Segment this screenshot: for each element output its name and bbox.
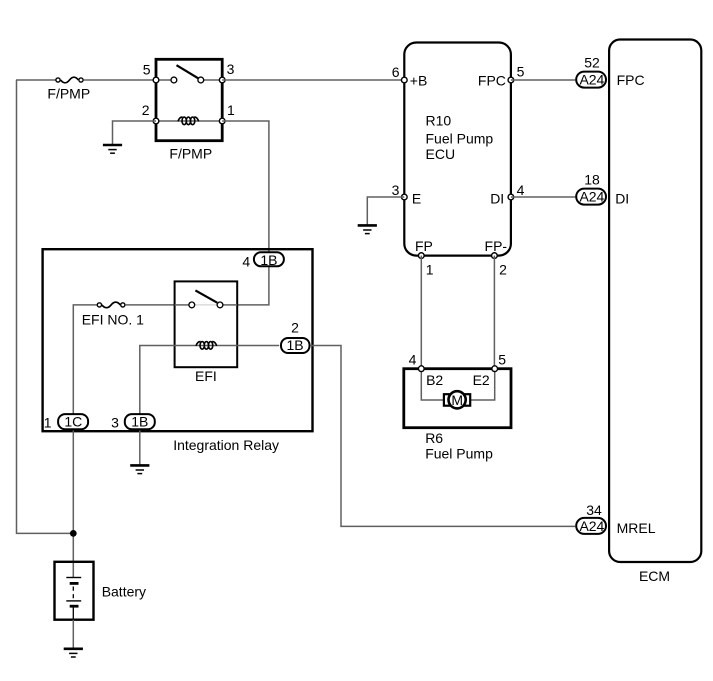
svg-text:FPC: FPC [617, 72, 645, 88]
svg-text:1C: 1C [64, 414, 82, 430]
ground (battery) [64, 649, 83, 657]
svg-text:1: 1 [227, 102, 235, 118]
svg-text:1: 1 [44, 415, 52, 431]
svg-text:A24: A24 [579, 189, 604, 205]
wire: relay pin 3 to ECU +B [222, 79, 404, 81]
svg-text:Battery: Battery [102, 584, 146, 600]
pin label FP [415, 238, 433, 254]
wire: pump pin 5 to motor [470, 369, 495, 400]
svg-text:5: 5 [517, 64, 525, 80]
pin 1 terminal [219, 118, 225, 124]
svg-text:MREL: MREL [617, 520, 656, 536]
svg-text:3: 3 [392, 182, 400, 198]
svg-text:ECU: ECU [426, 146, 456, 162]
pin number 1 [426, 262, 434, 278]
svg-text:R6: R6 [425, 430, 443, 446]
motor M [444, 391, 470, 408]
wire: 1C pin 1 down to battery [72, 431, 74, 578]
pin label FPC [478, 72, 506, 88]
ECM pin label MREL [617, 520, 656, 536]
wire: EFI coil out to 1B pin 2 [237, 345, 279, 347]
pin number 3 [392, 182, 400, 198]
svg-text:5: 5 [143, 61, 151, 77]
pin number 5 [143, 61, 151, 77]
pin FPC terminal [508, 77, 514, 83]
svg-text:DI: DI [615, 191, 629, 207]
pin DI terminal [508, 194, 514, 200]
svg-text:2: 2 [499, 262, 507, 278]
pin number 4 [242, 253, 250, 269]
pin +B terminal [401, 77, 407, 83]
svg-text:6: 6 [392, 64, 400, 80]
wire: 1B pin 2 to ECM MREL [311, 346, 576, 527]
svg-text:3: 3 [227, 61, 235, 77]
wire: ECU FP down to pump pin 4 [420, 256, 422, 369]
relay F/PMP box [156, 59, 222, 140]
svg-text:FP-: FP- [485, 238, 508, 254]
wire: fuse to EFI relay [125, 304, 174, 306]
pin number 5 [517, 64, 525, 80]
coil F/PMP relay [178, 117, 199, 125]
svg-text:2: 2 [142, 102, 150, 118]
pin number 4 [517, 182, 525, 198]
svg-text:1B: 1B [260, 252, 277, 268]
pin number 6 [392, 64, 400, 80]
connector 1B pin 2 [281, 337, 310, 353]
pin 3 terminal [219, 77, 225, 83]
wire: relay pin 2 to ground [113, 121, 157, 144]
pin label E2 [473, 372, 490, 388]
svg-text:4: 4 [409, 351, 417, 367]
pin number 1 [44, 415, 52, 431]
integration relay box [43, 249, 313, 431]
svg-text:FP: FP [415, 238, 433, 254]
pin FP terminal [418, 253, 424, 259]
fuel pump R6 box [404, 369, 511, 428]
ECM pin label FPC [617, 72, 645, 88]
ground (integration relay) [130, 465, 149, 473]
pin number 52 [584, 55, 600, 71]
svg-text:ECM: ECM [639, 568, 670, 584]
svg-text:M: M [451, 392, 463, 408]
label R10 Fuel Pump ECU [426, 112, 494, 162]
wire: relay coil row [156, 120, 222, 122]
pin number 3 [111, 415, 119, 431]
svg-text:18: 18 [584, 171, 600, 187]
wire: ECU FP- down to pump pin 5 [493, 256, 495, 369]
wire: EFI NO.1 fuse feed [73, 305, 97, 414]
svg-text:52: 52 [584, 55, 600, 71]
pin number 5 [498, 351, 506, 367]
svg-text:4: 4 [242, 253, 250, 269]
svg-text:Fuel Pump: Fuel Pump [426, 130, 494, 146]
relay EFI box [175, 281, 238, 367]
pump pin 5 terminal [492, 366, 498, 372]
pin label E [412, 190, 421, 206]
pin E terminal [401, 194, 407, 200]
pin label DI [490, 190, 504, 206]
fuse F/PMP [56, 77, 83, 83]
coil EFI relay [196, 342, 217, 350]
pin label B2 [426, 372, 443, 388]
svg-text:5: 5 [498, 351, 506, 367]
svg-text:EFI: EFI [195, 368, 217, 384]
label R6 Fuel Pump [425, 430, 493, 462]
connector A24 pin 18 [576, 189, 606, 205]
wire: battery to ground [72, 620, 74, 648]
pin FP- terminal [492, 253, 498, 259]
pin 5 terminal [153, 77, 159, 83]
svg-text:1: 1 [426, 262, 434, 278]
connector 1B pin 4 [254, 252, 284, 268]
ground (ECU E) [358, 225, 377, 233]
ECM pin label DI [615, 191, 629, 207]
pin number 2 [499, 262, 507, 278]
fuse EFI NO. 1 [97, 302, 125, 308]
wire: ECU E to ground [367, 197, 404, 225]
connector A24 pin 52 [576, 72, 606, 88]
pin number 4 [409, 351, 417, 367]
label Battery [102, 584, 146, 600]
connector 1C pin 1 [58, 414, 88, 430]
label F/PMP (relay) [169, 146, 212, 162]
wire: relay switch row [156, 79, 222, 81]
svg-text:A24: A24 [579, 72, 604, 88]
svg-text:2: 2 [291, 319, 299, 335]
connector 1B pin 3 [125, 414, 155, 430]
svg-text:F/PMP: F/PMP [47, 85, 90, 101]
pin number 2 [142, 102, 150, 118]
wire: fuse to relay pin 5 [84, 79, 156, 81]
svg-text:Fuel Pump: Fuel Pump [425, 445, 493, 461]
svg-text:R10: R10 [426, 112, 452, 128]
svg-text:3: 3 [111, 415, 119, 431]
wire: relay pin 1 over to EFI relay switch [222, 121, 269, 305]
wire: EFI coil to 1B pin 3 [140, 346, 175, 415]
switch contacts EFI relay [189, 290, 223, 307]
junction battery node [70, 530, 77, 537]
pin label +B [410, 72, 428, 88]
label EFI [195, 368, 217, 384]
label ECM [639, 568, 670, 584]
ECU R10 box [404, 43, 511, 256]
svg-text:E: E [412, 190, 421, 206]
wire: EFI coil row [175, 345, 238, 347]
pin number 2 [291, 319, 299, 335]
svg-text:FPC: FPC [478, 72, 506, 88]
pump pin 4 terminal [418, 366, 424, 372]
wire: 1B pin 3 to ground [139, 431, 141, 465]
connector A24 pin 34 [576, 518, 606, 534]
label F/PMP (fuse) [47, 85, 90, 101]
label Integration Relay [173, 437, 279, 453]
svg-text:B2: B2 [426, 372, 443, 388]
wire: pump pin 4 to motor [421, 369, 444, 400]
battery [55, 562, 94, 620]
ECM box [609, 40, 701, 563]
svg-text:Integration Relay: Integration Relay [173, 437, 279, 453]
pin label FP- [485, 238, 508, 254]
pin number 1 [227, 102, 235, 118]
svg-text:+B: +B [410, 72, 428, 88]
pin number 3 [227, 61, 235, 77]
wire: DI to connector A24 [511, 196, 575, 198]
svg-text:F/PMP: F/PMP [169, 146, 212, 162]
svg-text:EFI NO. 1: EFI NO. 1 [82, 311, 144, 327]
wire: FPC to connector A24 [511, 79, 575, 81]
wire: top feed to fuse F/PMP [16, 79, 56, 81]
wire: EFI switch row [175, 304, 238, 306]
pin number 34 [586, 502, 602, 518]
svg-text:E2: E2 [473, 372, 490, 388]
svg-text:1B: 1B [286, 337, 303, 353]
svg-text:1B: 1B [131, 414, 148, 430]
switch contacts F/PMP relay [171, 65, 204, 83]
label EFI NO. 1 [82, 311, 144, 327]
svg-text:A24: A24 [579, 518, 604, 534]
svg-text:34: 34 [586, 502, 602, 518]
ground (relay F/PMP) [103, 145, 122, 153]
pin 2 terminal [153, 118, 159, 124]
svg-text:4: 4 [517, 182, 525, 198]
pin number 18 [584, 171, 600, 187]
svg-text:DI: DI [490, 190, 504, 206]
wire: battery feed from left edge top to junction [17, 80, 71, 533]
